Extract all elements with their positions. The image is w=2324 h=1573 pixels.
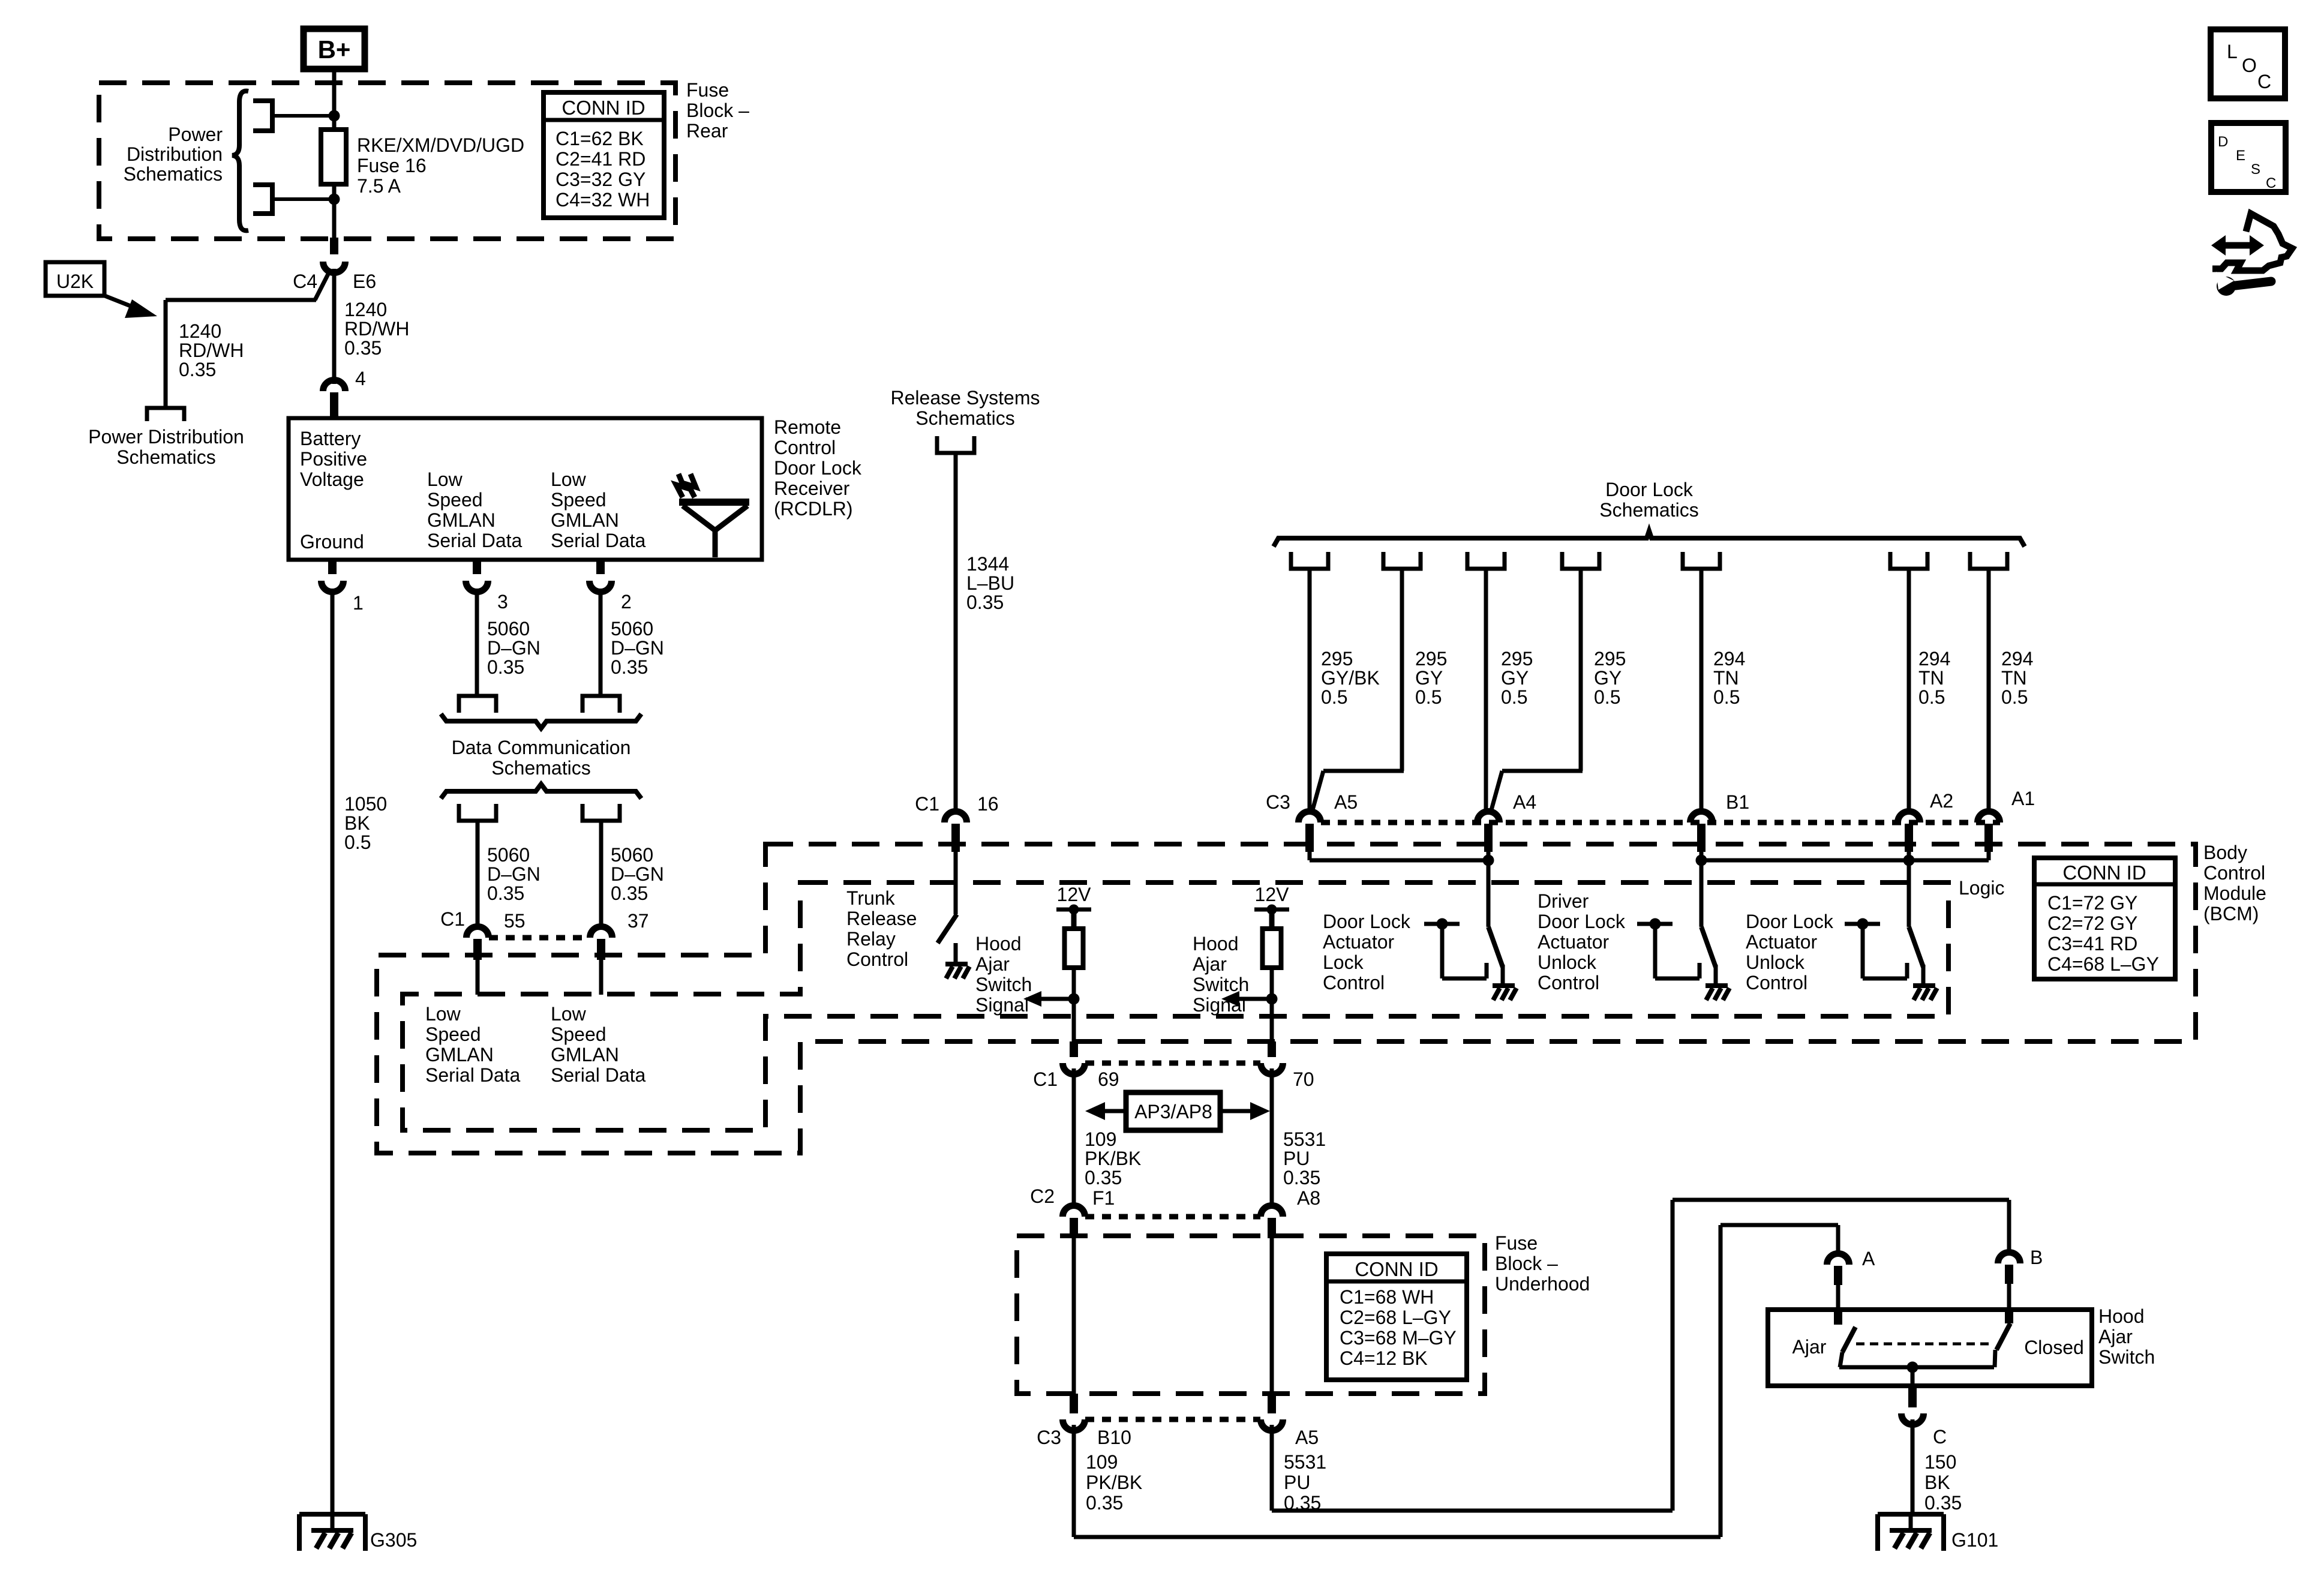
svg-text:D–GN: D–GN bbox=[611, 863, 664, 885]
svg-text:5531: 5531 bbox=[1283, 1128, 1326, 1150]
arrow hood ajar switch signal 2 bbox=[1221, 991, 1272, 1007]
svg-text:Speed: Speed bbox=[551, 489, 606, 511]
connector A1 (BCM) bbox=[1978, 788, 2035, 852]
dotted connector line C2 F1-A8 bbox=[1085, 1214, 1260, 1220]
svg-text:0.5: 0.5 bbox=[1713, 686, 1740, 708]
svg-text:C2: C2 bbox=[1030, 1185, 1055, 1207]
svg-text:D: D bbox=[2218, 134, 2228, 150]
svg-text:0.5: 0.5 bbox=[1415, 686, 1442, 708]
svg-text:E6: E6 bbox=[353, 271, 376, 292]
svg-text:5060: 5060 bbox=[487, 618, 530, 640]
svg-text:(BCM): (BCM) bbox=[2203, 903, 2259, 924]
RCDLR pin label GMLAN 1 bbox=[427, 469, 523, 551]
svg-text:G305: G305 bbox=[370, 1529, 417, 1551]
junction dot 12V 1 bbox=[1069, 905, 1079, 915]
switch blade closed bbox=[1995, 1323, 2010, 1367]
junction dot above fuse bbox=[329, 110, 340, 122]
svg-text:Remote: Remote bbox=[774, 416, 841, 438]
svg-text:CONN ID: CONN ID bbox=[2062, 861, 2146, 884]
terminal door lock 2 bbox=[1383, 552, 1421, 569]
svg-text:0.35: 0.35 bbox=[1085, 1167, 1122, 1188]
svg-text:PU: PU bbox=[1284, 1472, 1310, 1493]
svg-text:Schematics: Schematics bbox=[1599, 499, 1698, 521]
svg-text:GY: GY bbox=[1501, 667, 1529, 689]
label U2K bbox=[46, 262, 104, 296]
label Door Lock Actuator Lock Control bbox=[1323, 911, 1411, 993]
svg-text:A: A bbox=[1862, 1248, 1875, 1269]
svg-text:E: E bbox=[2236, 148, 2245, 164]
connector C2 F1 bbox=[1030, 1185, 1115, 1238]
svg-text:C1=68 WH: C1=68 WH bbox=[1340, 1286, 1434, 1308]
svg-text:5060: 5060 bbox=[611, 844, 653, 866]
label 295 GY 0.5 (2) bbox=[1415, 648, 1447, 708]
svg-text:Serial Data: Serial Data bbox=[427, 530, 523, 551]
svg-text:Ajar: Ajar bbox=[1193, 953, 1227, 975]
svg-text:B+: B+ bbox=[318, 35, 351, 64]
svg-text:Module: Module bbox=[2203, 882, 2266, 904]
svg-text:0.35: 0.35 bbox=[487, 882, 524, 904]
label 294 TN 0.5 (A2) bbox=[1918, 648, 1950, 708]
svg-text:Data Communication: Data Communication bbox=[452, 737, 631, 758]
svg-text:37: 37 bbox=[627, 910, 649, 932]
label Door Lock Schematics bbox=[1599, 479, 1698, 521]
label Trunk Release Relay Control bbox=[846, 887, 917, 970]
svg-text:GMLAN: GMLAN bbox=[551, 1044, 619, 1065]
svg-text:Control: Control bbox=[774, 437, 836, 458]
connector C4/E6 bbox=[293, 238, 376, 292]
connector C3 B10 bbox=[1037, 1394, 1131, 1448]
svg-text:RKE/XM/DVD/UGD: RKE/XM/DVD/UGD bbox=[357, 134, 524, 156]
svg-text:1050: 1050 bbox=[344, 793, 387, 815]
wire 1050 BK ground wire bbox=[331, 592, 335, 1514]
terminal door lock 1 bbox=[1291, 552, 1328, 569]
label Power Distribution Schematics (fuse block) bbox=[124, 124, 223, 185]
wire 295 GY/BK (A5) bbox=[1308, 569, 1312, 812]
svg-text:1: 1 bbox=[353, 592, 364, 614]
svg-text:CONN ID: CONN ID bbox=[562, 97, 645, 119]
svg-text:Fuse: Fuse bbox=[1495, 1232, 1538, 1254]
connector B1 (BCM) bbox=[1691, 791, 1750, 852]
svg-text:Door Lock: Door Lock bbox=[1323, 911, 1411, 932]
wire B+ to fuse bbox=[332, 72, 337, 130]
svg-text:PK/BK: PK/BK bbox=[1085, 1148, 1141, 1169]
svg-text:Lock: Lock bbox=[1323, 951, 1364, 973]
brace door lock schematics bbox=[1274, 531, 2025, 547]
svg-text:Unlock: Unlock bbox=[1746, 951, 1805, 973]
wire 1240 RD/WH E6 to RCDLR bbox=[332, 269, 337, 384]
svg-text:Actuator: Actuator bbox=[1746, 931, 1818, 953]
CONN ID table BCM bbox=[2034, 858, 2175, 979]
svg-text:Hood: Hood bbox=[975, 933, 1022, 954]
svg-text:0.5: 0.5 bbox=[1594, 686, 1620, 708]
wire 55 into gmlan pocket bbox=[476, 960, 480, 995]
ground G305 bbox=[299, 1514, 417, 1551]
label Power Distribution Schematics (bottom) bbox=[88, 426, 244, 468]
svg-text:Logic: Logic bbox=[1959, 877, 2005, 899]
svg-text:2: 2 bbox=[621, 591, 632, 613]
svg-text:0.35: 0.35 bbox=[611, 882, 648, 904]
wire 295 GY (A4) bbox=[1484, 569, 1488, 812]
svg-text:294: 294 bbox=[1918, 648, 1950, 670]
wire B pin into switch box bbox=[2007, 1284, 2011, 1323]
svg-text:A5: A5 bbox=[1334, 791, 1358, 813]
svg-text:294: 294 bbox=[1713, 648, 1745, 670]
svg-text:0.35: 0.35 bbox=[487, 656, 524, 678]
connector C1 69 bbox=[1033, 1041, 1119, 1090]
label 295 GY 0.5 (3) bbox=[1501, 648, 1533, 708]
svg-text:0.5: 0.5 bbox=[2001, 686, 2028, 708]
svg-text:Release: Release bbox=[846, 908, 917, 929]
svg-text:5060: 5060 bbox=[487, 844, 530, 866]
svg-text:0.35: 0.35 bbox=[179, 359, 216, 380]
svg-text:GY: GY bbox=[1594, 667, 1622, 689]
RCDLR pin labels battery positive voltage / ground bbox=[300, 428, 367, 553]
label Hood Ajar Switch Signal 2 bbox=[1193, 933, 1249, 1016]
label wire 1240 RD/WH 0.35 (E6) bbox=[344, 299, 409, 359]
fuse internal hood ajar 1 bbox=[1065, 929, 1083, 968]
RCDLR pin 2 connector bbox=[590, 560, 632, 613]
fuse internal hood ajar 2 bbox=[1263, 929, 1281, 968]
svg-text:G101: G101 bbox=[1951, 1529, 1998, 1551]
svg-text:L: L bbox=[2227, 41, 2238, 62]
icon LOC bbox=[2211, 29, 2285, 98]
svg-text:Closed: Closed bbox=[2024, 1337, 2084, 1358]
svg-text:L–BU: L–BU bbox=[966, 572, 1014, 594]
svg-text:0.35: 0.35 bbox=[1283, 1167, 1320, 1188]
svg-text:0.5: 0.5 bbox=[1501, 686, 1527, 708]
wire 109 routing to hood switch A bbox=[1074, 1225, 1838, 1537]
terminal door lock 5 bbox=[1683, 552, 1720, 569]
svg-text:Ajar: Ajar bbox=[975, 953, 1010, 975]
label 294 TN 0.5 (B1) bbox=[1713, 648, 1745, 708]
terminal release systems bbox=[937, 436, 974, 453]
antenna symbol RCDLR bbox=[676, 474, 749, 557]
wire 295 GY joining A4 bbox=[1491, 569, 1583, 810]
wire A5 to A4 junction bbox=[1310, 852, 1488, 860]
svg-text:C2=72 GY: C2=72 GY bbox=[2047, 912, 2137, 934]
svg-text:Distribution: Distribution bbox=[127, 143, 223, 165]
ground trunk release bbox=[945, 943, 969, 978]
svg-text:Door Lock: Door Lock bbox=[774, 457, 862, 479]
svg-text:C: C bbox=[2257, 71, 2271, 92]
dashed box Fuse Block - Underhood bbox=[1017, 1236, 1485, 1394]
svg-text:295: 295 bbox=[1321, 648, 1353, 670]
wire 295 GY joining A5 bbox=[1313, 569, 1404, 810]
svg-text:0.35: 0.35 bbox=[1086, 1492, 1123, 1514]
terminal gmlan down 2 bbox=[582, 804, 620, 821]
svg-text:295: 295 bbox=[1501, 648, 1533, 670]
svg-text:D–GN: D–GN bbox=[611, 637, 664, 659]
svg-text:Serial Data: Serial Data bbox=[425, 1064, 521, 1086]
junction dot 12V 2 bbox=[1267, 905, 1277, 915]
svg-text:Ajar: Ajar bbox=[1792, 1336, 1827, 1358]
svg-text:150: 150 bbox=[1924, 1451, 1956, 1473]
svg-text:C3: C3 bbox=[1266, 791, 1290, 813]
wire 12V to signal 2 bbox=[1270, 968, 1274, 1043]
dotted connector line C1 55-37 bbox=[489, 935, 590, 941]
svg-text:C2=41 RD: C2=41 RD bbox=[556, 148, 645, 170]
connector C1 16 bbox=[915, 793, 999, 852]
BCM logic inner dashed outline bbox=[403, 882, 1948, 1130]
wire 294 TN (A2) bbox=[1907, 569, 1911, 812]
fuse block terminal upper bbox=[253, 101, 334, 131]
label Data Communication Schematics bbox=[452, 737, 631, 779]
module box RCDLR bbox=[289, 418, 762, 560]
label Fuse Block - Rear bbox=[686, 79, 749, 142]
svg-text:Positive: Positive bbox=[300, 448, 367, 470]
svg-text:Underhood: Underhood bbox=[1495, 1273, 1590, 1295]
svg-text:Schematics: Schematics bbox=[124, 163, 223, 185]
svg-text:Battery: Battery bbox=[300, 428, 361, 449]
wire 1240 RD/WH to power distribution bbox=[166, 269, 331, 408]
label wire 1240 RD/WH 0.35 (left) bbox=[179, 320, 244, 380]
svg-text:A1: A1 bbox=[2011, 788, 2035, 809]
label 109 PK/BK 0.35 lower bbox=[1086, 1451, 1142, 1514]
connector A2 (BCM) bbox=[1898, 790, 1954, 852]
CONN ID table fuse block underhood bbox=[1326, 1254, 1467, 1380]
wire 5531 through fuse block bbox=[1270, 1238, 1274, 1398]
connector A hood switch bbox=[1827, 1248, 1876, 1285]
svg-text:Signal: Signal bbox=[975, 994, 1029, 1016]
label Remote Control Door Lock Receiver (RCDLR) bbox=[774, 416, 862, 520]
svg-text:Actuator: Actuator bbox=[1538, 931, 1610, 953]
svg-text:TN: TN bbox=[2001, 667, 2027, 689]
svg-text:D–GN: D–GN bbox=[487, 637, 541, 659]
connector C1 55 bbox=[440, 908, 526, 960]
svg-text:C3=32 GY: C3=32 GY bbox=[556, 169, 645, 190]
label Ajar bbox=[1792, 1336, 1827, 1358]
dotted connector line C3 row bbox=[1321, 820, 2000, 825]
svg-text:Signal: Signal bbox=[1193, 994, 1246, 1016]
label Hood Ajar Switch Signal 1 bbox=[975, 933, 1032, 1016]
ground G101 bbox=[1878, 1514, 1998, 1551]
arrow hood ajar switch signal 1 bbox=[1023, 991, 1074, 1007]
svg-text:TN: TN bbox=[1918, 667, 1944, 689]
svg-text:D–GN: D–GN bbox=[487, 863, 541, 885]
svg-text:C1=62 BK: C1=62 BK bbox=[556, 128, 644, 149]
svg-text:55: 55 bbox=[504, 910, 526, 932]
svg-text:Low: Low bbox=[425, 1003, 461, 1025]
svg-text:Control: Control bbox=[846, 948, 908, 970]
label AP3/AP8 with arrows bbox=[1085, 1092, 1270, 1130]
terminal to Power Distribution Schematics bbox=[147, 408, 184, 421]
label Logic bbox=[1959, 877, 2005, 899]
svg-text:Fuse 16: Fuse 16 bbox=[357, 155, 427, 176]
svg-text:TN: TN bbox=[1713, 667, 1739, 689]
svg-text:0.5: 0.5 bbox=[1321, 686, 1347, 708]
svg-text:Low: Low bbox=[551, 1003, 587, 1025]
junction dot B1 bbox=[1696, 855, 1707, 866]
connector A8 bbox=[1261, 1187, 1321, 1238]
svg-text:C1: C1 bbox=[440, 908, 465, 930]
dotted connector line C1 69-70 bbox=[1085, 1061, 1260, 1066]
svg-text:Actuator: Actuator bbox=[1323, 931, 1395, 953]
svg-text:B1: B1 bbox=[1726, 791, 1749, 813]
svg-text:Control: Control bbox=[1746, 972, 1807, 993]
icon DESC bbox=[2211, 123, 2286, 192]
svg-text:B: B bbox=[2030, 1247, 2043, 1268]
wire fuse to connector C4/E6 bbox=[332, 184, 337, 239]
svg-text:Serial Data: Serial Data bbox=[551, 1064, 646, 1086]
label 5060 D-GN 0.35 (55) bbox=[487, 844, 541, 904]
terminal door lock 7 bbox=[1970, 552, 2007, 569]
wire 150 BK bbox=[1911, 1419, 1915, 1514]
label Driver Door Lock Actuator Unlock Control bbox=[1538, 890, 1626, 993]
fuse block terminal lower bbox=[253, 185, 334, 214]
svg-text:0.5: 0.5 bbox=[344, 831, 371, 853]
connector 4 into RCDLR bbox=[323, 368, 366, 418]
switch driver door lock actuator unlock control with ground bbox=[1637, 860, 1730, 1000]
dashed switch link bbox=[1856, 1343, 1993, 1346]
svg-text:RD/WH: RD/WH bbox=[344, 318, 409, 340]
label 294 TN 0.5 (A1) bbox=[2001, 648, 2033, 708]
svg-text:Body: Body bbox=[2203, 842, 2247, 863]
svg-text:PU: PU bbox=[1283, 1148, 1310, 1169]
svg-text:Power Distribution: Power Distribution bbox=[88, 426, 244, 448]
svg-text:BK: BK bbox=[1924, 1472, 1950, 1493]
wire 5060 D-GN pin 3 bbox=[475, 592, 479, 696]
junction dot A4 bbox=[1483, 855, 1494, 866]
svg-text:C: C bbox=[1933, 1426, 1947, 1448]
svg-text:Control: Control bbox=[1538, 972, 1599, 993]
wire 5060 D-GN pin 2 bbox=[599, 592, 603, 696]
svg-text:S: S bbox=[2251, 161, 2260, 178]
switch door lock actuator unlock control with ground bbox=[1845, 860, 1937, 1000]
svg-text:5531: 5531 bbox=[1284, 1451, 1326, 1473]
svg-text:1344: 1344 bbox=[966, 553, 1009, 575]
svg-text:Ground: Ground bbox=[300, 531, 364, 553]
wire 37 into gmlan pocket bbox=[599, 960, 603, 995]
svg-text:5060: 5060 bbox=[611, 618, 653, 640]
junction dot signal 1 bbox=[1068, 993, 1080, 1005]
junction dot A2 bbox=[1903, 855, 1915, 866]
svg-text:Schematics: Schematics bbox=[491, 757, 590, 779]
label 1344 L-BU 0.35 bbox=[966, 553, 1014, 613]
dotted connector line C3 B10-A5 bbox=[1085, 1417, 1260, 1422]
RCDLR pin label GMLAN 2 bbox=[551, 469, 646, 551]
junction dot switch common bbox=[1907, 1362, 1918, 1373]
terminal door lock 6 bbox=[1890, 552, 1927, 569]
brace data communication lower bbox=[441, 784, 641, 798]
connector 70 bbox=[1261, 1041, 1314, 1090]
connector C hood switch bbox=[1902, 1385, 1947, 1448]
CONN ID table fuse block rear bbox=[544, 92, 664, 218]
svg-text:Hood: Hood bbox=[2098, 1305, 2145, 1327]
label Low Speed GMLAN Serial Data (bcm 1) bbox=[425, 1003, 521, 1086]
svg-text:0.5: 0.5 bbox=[1918, 686, 1945, 708]
svg-text:C4=32 WH: C4=32 WH bbox=[556, 189, 650, 211]
svg-text:U2K: U2K bbox=[56, 271, 94, 292]
svg-text:4: 4 bbox=[355, 368, 366, 389]
svg-text:69: 69 bbox=[1098, 1068, 1119, 1090]
label 5060 D-GN 0.35 pin3 bbox=[487, 618, 541, 678]
brace for power distribution bbox=[232, 91, 248, 231]
svg-text:0.35: 0.35 bbox=[611, 656, 648, 678]
label Closed bbox=[2024, 1337, 2084, 1358]
label 5531 PU 0.35 lower bbox=[1284, 1451, 1326, 1514]
svg-text:Rear: Rear bbox=[686, 120, 728, 142]
svg-text:Power: Power bbox=[168, 124, 223, 145]
arrow U2K bbox=[103, 295, 157, 318]
connector 37 bbox=[590, 910, 649, 960]
svg-text:Low: Low bbox=[427, 469, 463, 490]
module box Hood Ajar Switch bbox=[1768, 1310, 2092, 1386]
svg-text:Speed: Speed bbox=[425, 1023, 481, 1045]
fuse RKE/XM/DVD/UGD Fuse 16 7.5A bbox=[321, 130, 524, 197]
power terminal B+ bbox=[304, 29, 365, 69]
svg-text:3: 3 bbox=[497, 591, 508, 613]
12V supply hood ajar 2 bbox=[1254, 884, 1289, 929]
svg-text:C3: C3 bbox=[1037, 1427, 1061, 1448]
svg-text:O: O bbox=[2242, 55, 2257, 76]
wire trunk release control bbox=[954, 852, 958, 914]
RCDLR pin 3 connector bbox=[466, 560, 508, 613]
svg-text:7.5 A: 7.5 A bbox=[357, 175, 401, 197]
svg-text:PK/BK: PK/BK bbox=[1086, 1472, 1142, 1493]
label 5531 PU 0.35 upper bbox=[1283, 1128, 1326, 1188]
svg-text:Receiver: Receiver bbox=[774, 478, 850, 499]
switch trunk release bbox=[938, 914, 957, 943]
svg-text:GY: GY bbox=[1415, 667, 1443, 689]
label 5060 D-GN 0.35 pin2 bbox=[611, 618, 664, 678]
svg-text:Switch: Switch bbox=[975, 974, 1032, 995]
label 295 GY/BK 0.5 bbox=[1321, 648, 1380, 708]
wire 1344 L-BU bbox=[954, 453, 958, 811]
svg-text:294: 294 bbox=[2001, 648, 2033, 670]
svg-text:70: 70 bbox=[1293, 1068, 1314, 1090]
svg-text:B10: B10 bbox=[1097, 1427, 1131, 1448]
svg-text:A5: A5 bbox=[1295, 1427, 1319, 1448]
svg-text:0.35: 0.35 bbox=[966, 592, 1004, 613]
svg-text:C1: C1 bbox=[915, 793, 939, 815]
svg-text:Speed: Speed bbox=[427, 489, 483, 511]
brace data communication upper bbox=[441, 714, 641, 728]
svg-text:Hood: Hood bbox=[1193, 933, 1239, 954]
svg-text:Low: Low bbox=[551, 469, 587, 490]
switch common wire bbox=[1839, 1367, 1994, 1386]
svg-text:Door Lock: Door Lock bbox=[1538, 911, 1626, 932]
svg-text:Unlock: Unlock bbox=[1538, 951, 1597, 973]
label 295 GY 0.5 (4) bbox=[1594, 648, 1626, 708]
svg-text:C4: C4 bbox=[293, 271, 317, 292]
svg-text:A8: A8 bbox=[1297, 1187, 1320, 1209]
svg-text:BK: BK bbox=[344, 812, 370, 834]
svg-text:GY/BK: GY/BK bbox=[1321, 667, 1380, 689]
wire 109 through fuse block bbox=[1072, 1238, 1076, 1398]
svg-text:1240: 1240 bbox=[179, 320, 221, 342]
svg-text:F1: F1 bbox=[1092, 1187, 1115, 1209]
label Low Speed GMLAN Serial Data (bcm 2) bbox=[551, 1003, 646, 1086]
terminal door lock 3 bbox=[1467, 552, 1505, 569]
svg-text:0.35: 0.35 bbox=[344, 337, 382, 359]
wire 5531 routing to hood switch B bbox=[1272, 1200, 2009, 1511]
wire 5060 to C1 55 bbox=[476, 821, 480, 927]
svg-text:Block –: Block – bbox=[1495, 1253, 1558, 1274]
connector B hood switch bbox=[1998, 1247, 2043, 1284]
wire 294 TN (A1) bbox=[1987, 569, 1991, 812]
terminal gmlan down 1 bbox=[459, 804, 496, 821]
svg-text:1240: 1240 bbox=[344, 299, 387, 320]
terminal data comm 1 bbox=[459, 696, 496, 713]
svg-text:C: C bbox=[2266, 175, 2276, 191]
connector A4 (BCM) bbox=[1478, 791, 1537, 852]
switch door lock actuator lock control with ground bbox=[1424, 860, 1517, 1000]
svg-text:Release Systems: Release Systems bbox=[891, 387, 1040, 409]
svg-text:109: 109 bbox=[1085, 1128, 1116, 1150]
svg-text:Schematics: Schematics bbox=[915, 407, 1014, 429]
svg-text:Door Lock: Door Lock bbox=[1746, 911, 1834, 932]
svg-text:Driver: Driver bbox=[1538, 890, 1589, 912]
